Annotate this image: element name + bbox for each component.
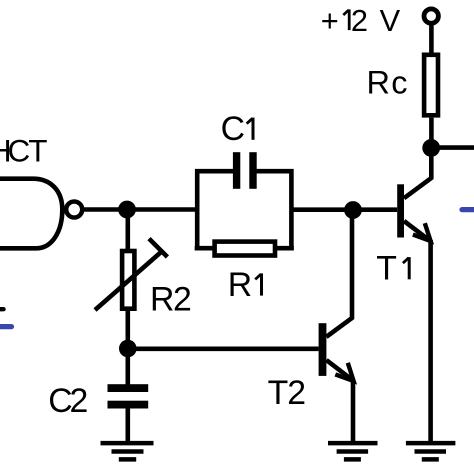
resistor R2 (variable) body: [122, 251, 134, 309]
R2 arrow crossbar: [149, 239, 167, 257]
resistor R1 body: [215, 242, 275, 256]
node B junction dot: [119, 340, 137, 358]
blue output dash right: [462, 207, 474, 212]
gate output bubble: [66, 202, 82, 218]
supply terminal circle: [424, 9, 438, 23]
wire node C down to T2 collector: [326, 210, 352, 337]
blue input dash left: [0, 324, 12, 329]
svg-text:c: c: [391, 64, 407, 100]
svg-text:2: 2: [287, 374, 306, 412]
label T2: [268, 374, 306, 412]
capacitor C2 top plate: [108, 384, 149, 392]
wire node A down to R2: [126, 210, 131, 251]
gate IC1 (NAND, partially cropped at left): [0, 179, 62, 249]
label R2: [150, 281, 192, 319]
wire R1 to right stub: [276, 246, 294, 251]
T1 collector wire: [404, 148, 431, 198]
wire Rc to supply terminal: [429, 24, 434, 53]
label HCT: [0, 132, 48, 168]
label Rc: [367, 64, 408, 100]
label +12V digit 1: [343, 9, 349, 30]
svg-text:T: T: [28, 132, 47, 168]
wire node B to T2 base: [128, 346, 319, 351]
resistor Rc body: [424, 55, 438, 116]
transistor T1 base bar: [397, 184, 404, 237]
svg-text:V: V: [380, 3, 401, 38]
wire left stub to R1: [195, 246, 216, 251]
svg-text:R: R: [150, 281, 174, 319]
svg-text:C: C: [8, 132, 31, 168]
ground G2: [328, 443, 378, 459]
label C1: [221, 110, 245, 148]
node A junction dot: [118, 201, 136, 219]
T1 emitter diagonal: [404, 221, 429, 240]
C1/R1 block right stub: [256, 171, 291, 250]
svg-text:+: +: [321, 3, 339, 38]
ground G3: [406, 443, 456, 459]
wire C2 to ground: [126, 408, 131, 441]
wire gate output to left stub: [82, 207, 197, 212]
node C junction dot: [344, 201, 362, 219]
capacitor C2 bottom plate: [108, 401, 149, 409]
svg-text:R: R: [228, 266, 252, 304]
label T1: [376, 250, 397, 288]
label R1 digit 1: [255, 273, 261, 295]
label C2: [48, 382, 88, 420]
svg-text:T: T: [268, 374, 289, 412]
svg-text:2: 2: [70, 382, 89, 420]
wire node B down to C2: [126, 349, 131, 385]
T2 emitter diagonal: [326, 360, 351, 379]
capacitor C1 right plate: [249, 152, 256, 189]
black input dash left: [0, 307, 4, 311]
svg-text:T: T: [376, 250, 397, 288]
svg-text:R: R: [367, 64, 390, 100]
R2 adjust arrow diagonal: [95, 253, 161, 311]
label R1: [228, 266, 252, 304]
svg-text:2: 2: [173, 281, 192, 319]
wire node D to right edge output: [431, 145, 474, 150]
T1 emitter wire down: [428, 240, 433, 442]
wire R2 to node B: [126, 311, 131, 349]
transistor T2 base bar: [319, 323, 327, 376]
T2 emitter arrowhead: [335, 363, 353, 381]
svg-text:C: C: [221, 110, 245, 148]
capacitor C1 left plate: [233, 152, 240, 189]
label C1 digit 1: [247, 118, 253, 140]
T1 emitter arrowhead: [413, 223, 431, 241]
ground G1: [101, 443, 154, 459]
wire node D up to Rc: [429, 118, 434, 148]
wire right stub to T1 base: [292, 207, 398, 212]
svg-text:2: 2: [351, 3, 368, 38]
label T1 digit 1: [403, 257, 409, 279]
C1/R1 parallel block left stub: [197, 171, 233, 250]
label +12 V: [321, 3, 401, 38]
node D junction dot: [422, 139, 440, 157]
T2 emitter wire down: [351, 380, 356, 442]
